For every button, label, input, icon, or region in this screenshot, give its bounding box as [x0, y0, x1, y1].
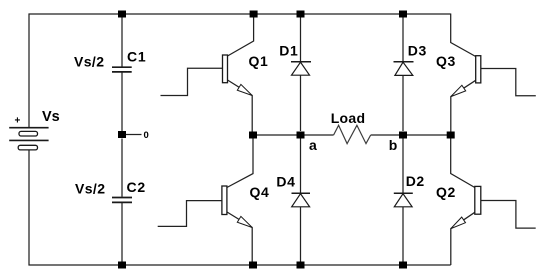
svg-text:b: b	[389, 137, 398, 153]
svg-text:a: a	[309, 137, 317, 153]
node a	[297, 132, 305, 139]
transistor Q3	[436, 14, 536, 132]
svg-text:Vs/2: Vs/2	[74, 54, 104, 70]
svg-text:Q1: Q1	[249, 53, 269, 69]
wire bottom rail	[29, 264, 451, 266]
capacitor C2	[75, 139, 146, 263]
svg-text:0: 0	[144, 130, 149, 141]
junction top C1	[118, 11, 126, 18]
svg-text:Vs: Vs	[42, 109, 60, 125]
battery Vs	[9, 109, 60, 150]
junction bottom D2	[399, 262, 407, 269]
transistor Q4	[158, 139, 270, 262]
junction top D3	[399, 11, 407, 18]
junction top Q1	[250, 11, 258, 18]
diode D4	[276, 139, 310, 262]
svg-text:+: +	[15, 116, 21, 127]
wire middle rail load to b	[371, 134, 451, 136]
diode D3	[394, 18, 427, 132]
svg-text:Q2: Q2	[436, 184, 456, 200]
wire top rail	[29, 13, 451, 15]
svg-text:C1: C1	[127, 49, 147, 65]
svg-text:Q4: Q4	[250, 184, 270, 200]
junction bottom C2	[118, 262, 126, 269]
svg-text:D1: D1	[279, 43, 298, 59]
wire left side upper	[28, 14, 30, 128]
svg-text:D2: D2	[406, 173, 425, 189]
diode D2	[394, 139, 425, 262]
resistor Load	[331, 110, 371, 144]
svg-text:D4: D4	[276, 173, 295, 189]
junction mid Q3-Q2	[447, 132, 455, 139]
junction top D1	[297, 11, 305, 18]
svg-text:C2: C2	[127, 179, 147, 195]
wire middle rail a to load	[253, 134, 334, 136]
capacitor C1	[74, 18, 147, 132]
svg-text:Load: Load	[331, 110, 366, 126]
svg-text:Vs/2: Vs/2	[75, 180, 105, 196]
transistor Q1	[161, 17, 269, 132]
junction mid Q1-Q4	[249, 132, 257, 139]
diode D1	[279, 18, 311, 132]
junction bottom D4	[297, 262, 305, 269]
node b	[399, 132, 407, 139]
transistor Q2	[436, 139, 536, 266]
junction bottom Q4	[249, 262, 257, 269]
svg-text:D3: D3	[408, 43, 427, 59]
wire left side lower	[28, 150, 30, 266]
node 0	[118, 130, 149, 141]
svg-text:Q3: Q3	[436, 53, 456, 69]
